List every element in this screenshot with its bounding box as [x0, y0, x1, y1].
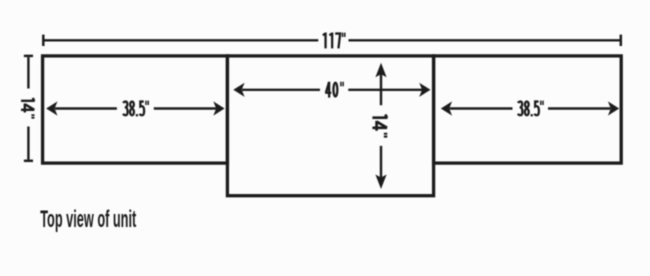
right rectangle (38.5" section)	[434, 56, 622, 163]
dimension 40" middle rect: right arrowhead	[419, 83, 430, 97]
dimension 38.5" right rect: arrow line	[450, 107, 611, 109]
middle rectangle (40" section)	[227, 56, 433, 196]
dimension 117" top: left end tick	[42, 35, 45, 46]
dimension 117" label	[323, 32, 345, 48]
dimension 38.5" left rect: left arrowhead	[46, 101, 57, 115]
dimension 117" top: line segments	[44, 39, 619, 41]
dimension 40" middle rect: arrow line	[242, 89, 422, 91]
dimension 14" middle rect: vertical arrow line	[380, 74, 382, 178]
left rectangle (38.5" section)	[43, 56, 228, 163]
dimension 14" left: line segments	[27, 57, 29, 160]
dimension 40" middle rect: label	[325, 82, 343, 98]
dimension 38.5" right rect: left arrowhead	[441, 101, 452, 115]
dimension 38.5" right rect: right arrowhead	[608, 101, 619, 115]
dimension 14" left: top end tick	[24, 55, 33, 58]
dimension 38.5" left rect: arrow line	[55, 107, 216, 109]
dimension 14" left: rotated label	[21, 98, 35, 118]
svg-text:Top view of unit: Top view of unit	[40, 206, 136, 234]
dimension 38.5" left rect: label	[123, 101, 148, 117]
dimension 14" middle rect: up arrowhead	[375, 63, 386, 78]
dimension 38.5" left rect: right arrowhead	[213, 101, 224, 115]
dimension 14" middle rect: down arrowhead	[375, 175, 386, 190]
dimension 117" top: right end tick	[620, 35, 623, 46]
dimension 38.5" right rect: label	[518, 101, 543, 117]
dimension 14" left: bottom end tick	[24, 160, 33, 163]
dimension 40" middle rect: left arrowhead	[233, 83, 244, 97]
dimension 14" middle rect: rotated label	[372, 115, 387, 137]
